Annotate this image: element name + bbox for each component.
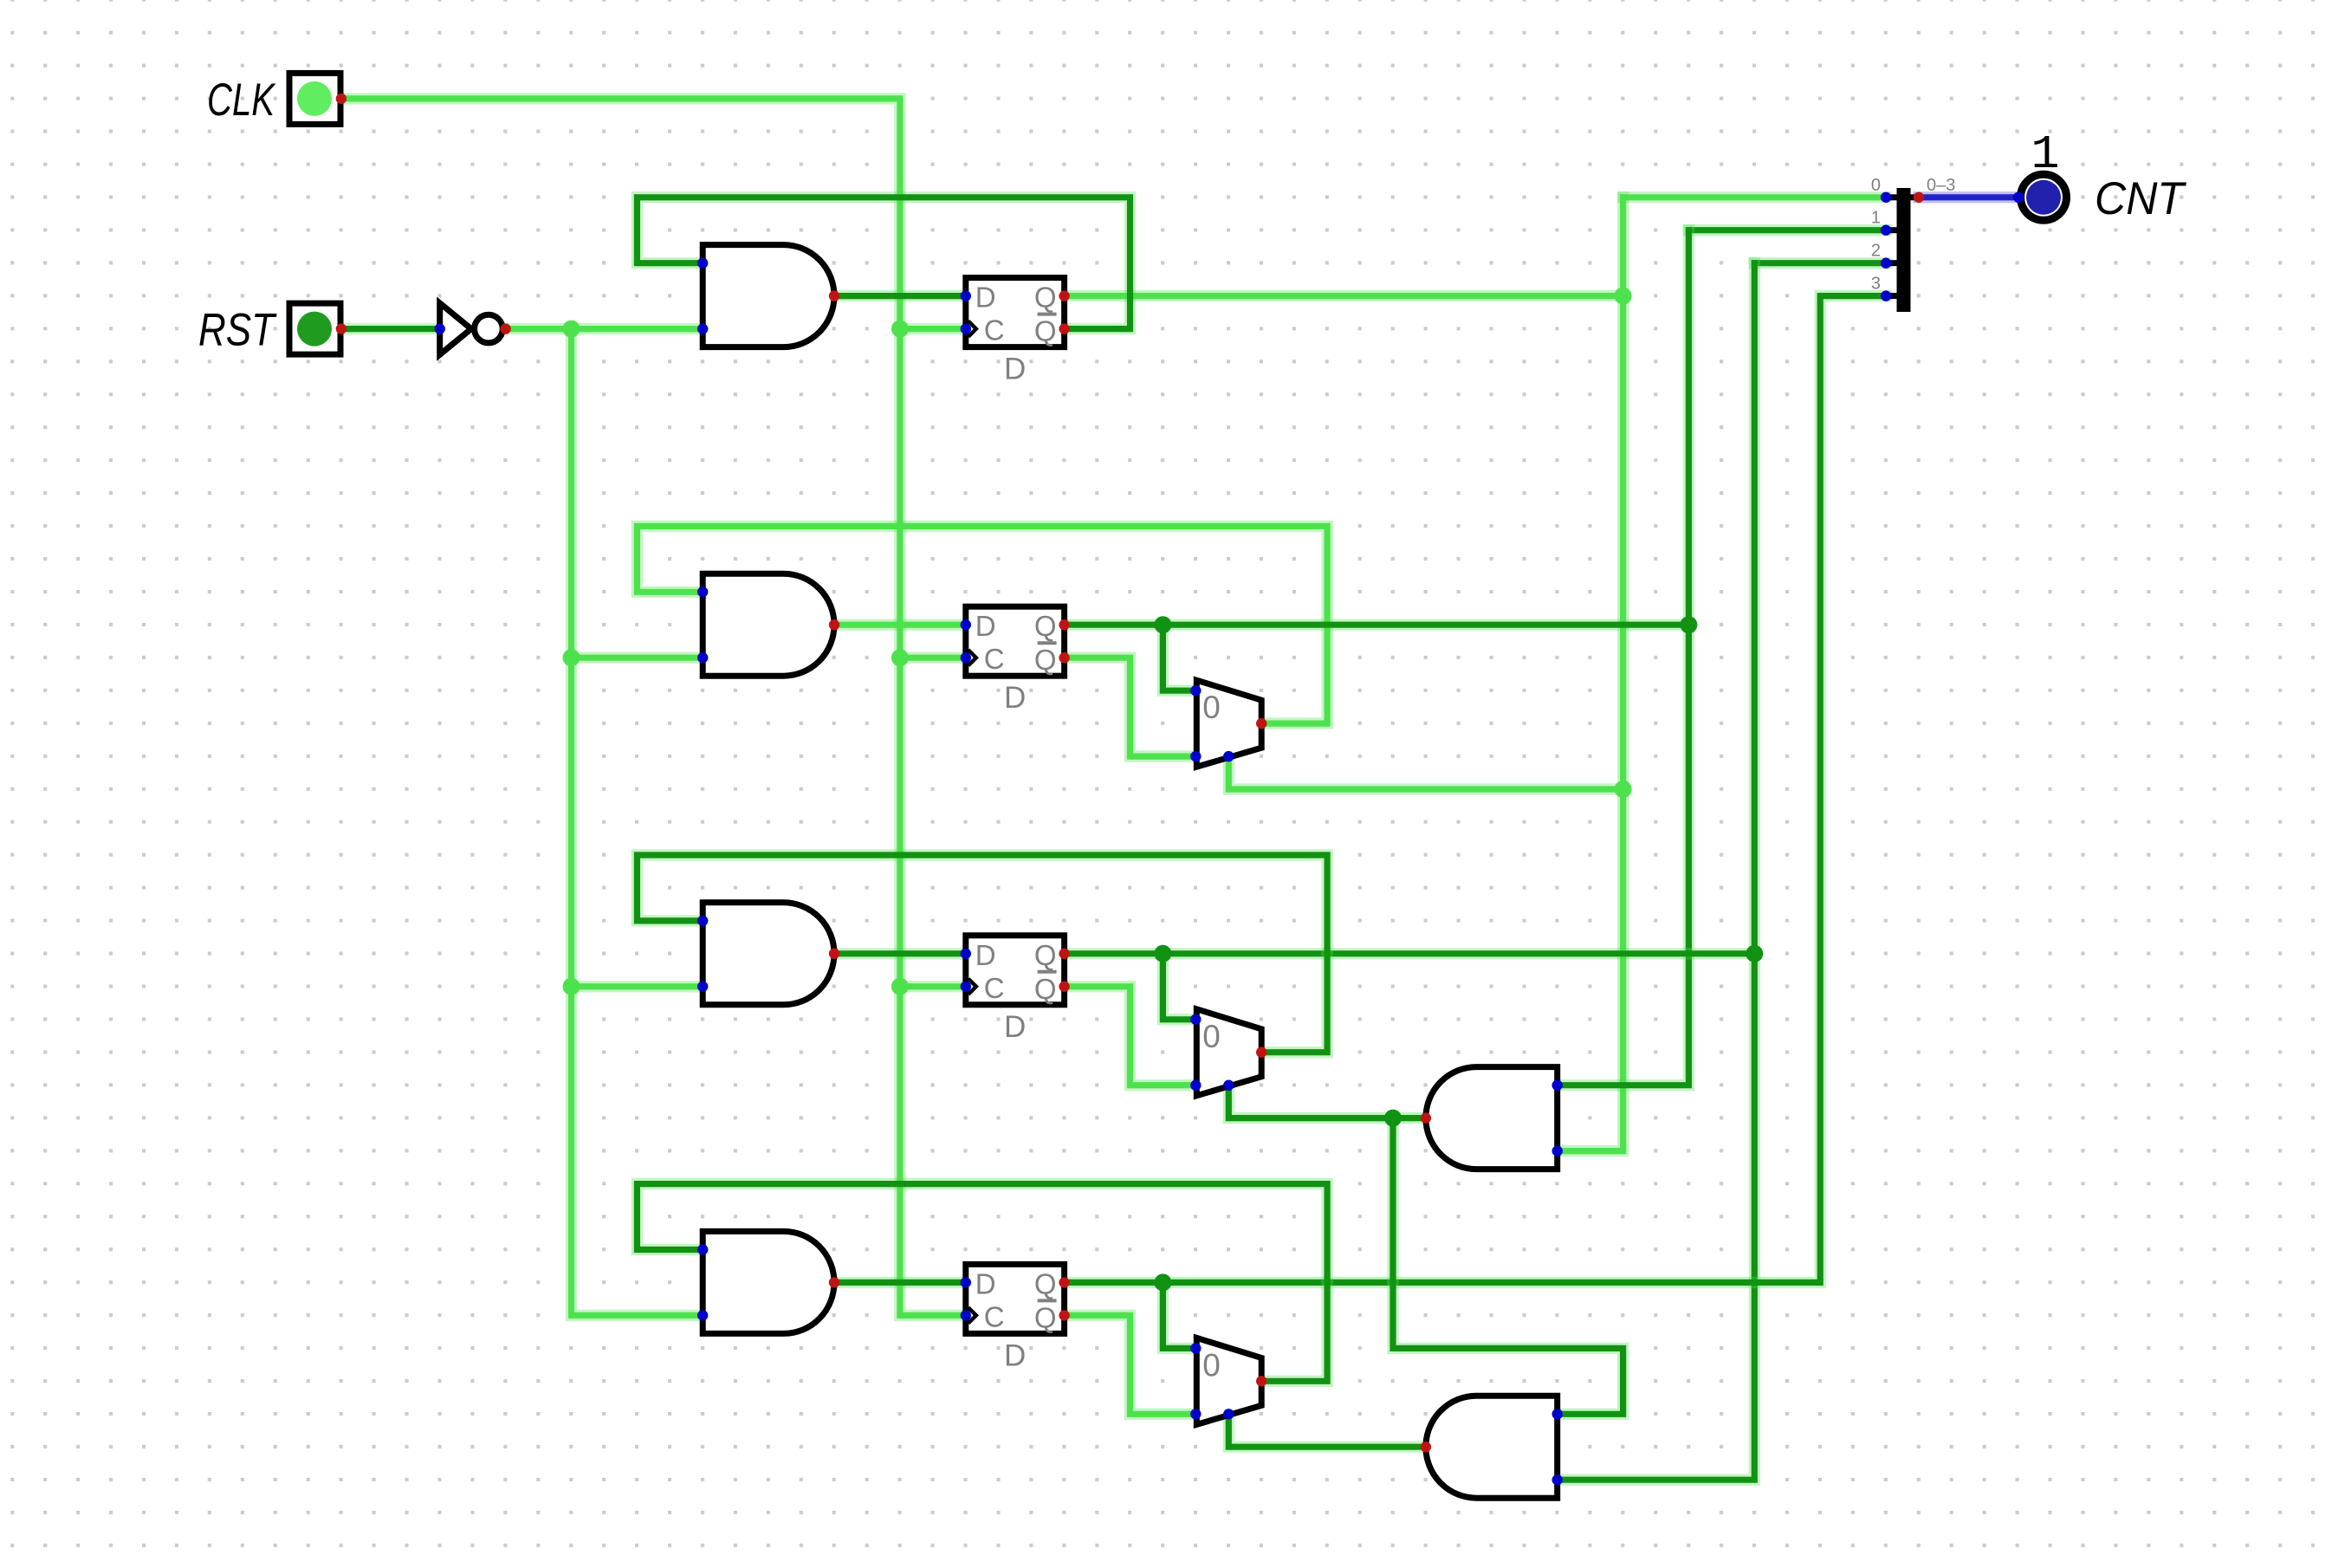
pin FF3.D: [961, 949, 971, 959]
junction FF3.Q mux tap: [1154, 945, 1171, 962]
wire FF1.Q vertical: [1558, 198, 1623, 1151]
pin MUX1.in0: [1190, 685, 1201, 696]
svg-text:0: 0: [1202, 690, 1221, 725]
pin AND U6.in2: [1552, 1474, 1563, 1485]
pin FF4.Qn: [1059, 1310, 1069, 1320]
wire FF4.Q to MUX3.in0: [1163, 1282, 1195, 1348]
wire CNT bus: [1919, 191, 2018, 203]
pin FF4.Q: [1059, 1277, 1069, 1287]
svg-text:Q: Q: [1034, 282, 1057, 314]
wire FF3.Q vertical: [1558, 263, 1755, 1481]
pin MUX2.sel: [1223, 1080, 1234, 1091]
wire AND4.out to FF4.D: [834, 1277, 966, 1288]
pin FF1.Qn: [1059, 323, 1069, 334]
pin AND U6.out: [1421, 1442, 1431, 1452]
pin splitter.in0: [1881, 192, 1891, 203]
wire FF2.Q to MUX1.in0: [1163, 625, 1195, 690]
pin splitter.in2: [1881, 258, 1891, 269]
pin FF3.C: [961, 982, 971, 992]
wire CLK to FF2.C: [900, 652, 966, 664]
junction CLK / FF3.C: [891, 978, 909, 995]
wire CLK to FF1.C: [900, 323, 966, 334]
pin RST.out: [336, 323, 347, 334]
pin MUX2.in0: [1190, 1014, 1201, 1025]
pin AND U2.in1: [697, 586, 708, 597]
pin FF2.C: [961, 652, 971, 663]
svg-text:C: C: [984, 643, 1005, 675]
D flip-flop FF3: [966, 936, 1065, 1044]
svg-text:CNT: CNT: [2095, 173, 2186, 224]
pin FF1.C: [961, 323, 971, 334]
AND gate U3 (bit2 enable): [703, 903, 834, 1005]
wire FF3.Qn to MUX2.in1: [1065, 987, 1196, 1085]
wire FF1.Q to junction: [1065, 290, 1623, 301]
svg-text:Q: Q: [1034, 973, 1057, 1005]
svg-text:0: 0: [1871, 176, 1881, 195]
output CNT: [2021, 174, 2067, 220]
pin FF4.D: [961, 1277, 971, 1287]
pin MUX3.sel: [1223, 1409, 1234, 1419]
wire AND5.out to AND6.in1: [1393, 1118, 1623, 1415]
pin MUX1.sel: [1223, 751, 1234, 761]
svg-text:D: D: [975, 1267, 996, 1299]
svg-text:0–3: 0–3: [1927, 176, 1955, 195]
svg-text:1: 1: [2031, 127, 2059, 182]
wire AND3.out to FF3.D: [834, 948, 966, 959]
pin AND U3.out: [829, 949, 839, 959]
pin FF2.D: [961, 619, 971, 630]
wire AND5.out to MUX2.sel: [1228, 1085, 1426, 1118]
pin MUX3.out: [1256, 1376, 1266, 1386]
pin splitter.out: [1914, 192, 1924, 203]
AND gate U5 (carry1, mirrored): [1426, 1067, 1558, 1170]
pin AND U5.in1: [1552, 1080, 1563, 1091]
wire FF2.Q vertical: [1558, 230, 1689, 1085]
pin AND U5.in2: [1552, 1145, 1563, 1156]
multiplexer MUX1: [1196, 680, 1261, 767]
junction FF4.Q mux tap: [1154, 1273, 1171, 1291]
wire CLK to FF3.C: [900, 981, 966, 992]
svg-text:1: 1: [1871, 209, 1881, 228]
wire NOT.out to AND3.in2: [572, 981, 703, 992]
svg-text:0: 0: [1202, 1019, 1221, 1054]
svg-text:C: C: [984, 314, 1005, 347]
svg-text:D: D: [1004, 1338, 1026, 1372]
pin AND U5.out: [1421, 1112, 1431, 1123]
wire AND6.out to MUX3.sel: [1228, 1414, 1426, 1447]
pin CNT.in: [2013, 192, 2024, 203]
input RST: [289, 303, 340, 354]
pin FF2.Q: [1059, 619, 1069, 630]
multiplexer MUX3: [1196, 1338, 1261, 1424]
wire FF1.Qn to AND1.in1: [637, 198, 1130, 329]
wire FF2.Qn to MUX1.in1: [1065, 658, 1196, 756]
pin FF1.D: [961, 290, 971, 301]
junction NOT.out row30: [563, 978, 580, 995]
svg-text:RST: RST: [198, 305, 277, 356]
junction CLK / FF1.C: [891, 321, 909, 338]
D flip-flop FF4: [966, 1264, 1065, 1372]
AND gate U2 (bit1 enable): [703, 573, 834, 676]
AND gate U6 (carry2, mirrored): [1426, 1396, 1558, 1498]
pin FF4.C: [961, 1310, 971, 1320]
AND gate U4 (bit3 enable): [703, 1231, 834, 1333]
pin AND U4.in2: [697, 1310, 708, 1320]
svg-text:Q: Q: [1034, 1301, 1057, 1333]
D flip-flop FF2: [966, 606, 1065, 715]
svg-text:2: 2: [1871, 242, 1881, 261]
wire FF1.Q to splitter pin0: [1623, 191, 1887, 203]
pin MUX3.in1: [1190, 1409, 1201, 1419]
pin AND U1.out: [829, 290, 839, 301]
junction NOT.out / AND1.in2: [563, 321, 580, 338]
wire MUX1.out to AND2.in1: [637, 526, 1327, 723]
pin MUX2.out: [1256, 1047, 1266, 1058]
pin NOT.in: [435, 323, 445, 334]
svg-text:D: D: [1004, 1010, 1026, 1044]
wire NOT.out to AND2.in2: [572, 652, 703, 664]
pin AND U6.in1: [1552, 1409, 1563, 1419]
NOT gate (inverter): [440, 303, 503, 354]
junction FF1.Q sel tap: [1615, 781, 1632, 798]
svg-text:D: D: [975, 610, 996, 642]
wire FF4.Qn to MUX3.in1: [1065, 1315, 1196, 1414]
input CLK: [289, 73, 340, 124]
pin AND U3.in1: [697, 916, 708, 926]
AND gate U1 (bit0 enable): [703, 245, 834, 347]
wire AND2.out to FF2.D: [834, 619, 966, 631]
wire FF2.Q trunk: [1065, 619, 1689, 631]
svg-text:3: 3: [1871, 275, 1881, 294]
wire FF3.Q to MUX2.in0: [1163, 954, 1195, 1020]
pin NOT.out: [500, 323, 510, 334]
pin AND U3.in2: [697, 982, 708, 992]
pin AND U1.in2: [697, 323, 708, 334]
D flip-flop FF1: [966, 278, 1065, 386]
wire FF2.Q to splitter pin1: [1688, 224, 1886, 236]
wire MUX2.out to AND3.in1: [637, 855, 1327, 1053]
pin MUX1.out: [1256, 718, 1266, 729]
wire RST to NOT.in: [341, 323, 440, 334]
pin AND U1.in1: [697, 258, 708, 269]
wire AND1.out to FF1.D: [834, 290, 966, 301]
svg-text:C: C: [984, 972, 1005, 1004]
junction FF2.Q mux tap: [1154, 616, 1171, 633]
svg-text:D: D: [975, 939, 996, 971]
pin AND U2.in2: [697, 652, 708, 663]
splitter (bus merger 0-3): [1886, 188, 1919, 312]
svg-text:D: D: [1004, 681, 1026, 715]
svg-text:Q: Q: [1034, 610, 1057, 642]
svg-text:Q: Q: [1034, 644, 1057, 676]
pin FF1.Q: [1059, 290, 1069, 301]
svg-text:D: D: [1004, 353, 1026, 386]
junction AND5.out tap: [1384, 1110, 1402, 1127]
svg-text:C: C: [984, 1300, 1005, 1332]
pin AND U4.in1: [697, 1244, 708, 1254]
pin AND U2.out: [829, 619, 839, 630]
svg-text:CLK: CLK: [207, 75, 276, 126]
junction NOT.out row20: [563, 649, 580, 666]
pin splitter.in3: [1881, 290, 1891, 301]
pin FF2.Qn: [1059, 652, 1069, 663]
pin MUX3.in0: [1190, 1343, 1201, 1353]
svg-text:Q: Q: [1034, 315, 1057, 347]
pin CLK.out: [336, 94, 347, 104]
wire FF3.Q to splitter pin2: [1754, 257, 1886, 269]
wire CLK trunk: [341, 99, 966, 1316]
pin FF3.Q: [1059, 949, 1069, 959]
wire FF1.Q to MUX1 sel: [1228, 756, 1623, 789]
multiplexer MUX2: [1196, 1009, 1261, 1096]
junction CLK / FF2.C: [891, 649, 909, 666]
junction FF3.Q splitter tap: [1746, 945, 1763, 962]
svg-text:D: D: [975, 282, 996, 314]
svg-text:Q: Q: [1034, 1267, 1057, 1299]
svg-text:0: 0: [1202, 1347, 1221, 1383]
pin FF3.Qn: [1059, 982, 1069, 992]
junction FF1.Q corner: [1615, 288, 1632, 305]
pin MUX1.in1: [1190, 751, 1201, 761]
pin AND U4.out: [829, 1277, 839, 1287]
wire FF3.Q trunk: [1065, 948, 1755, 959]
junction FF2.Q splitter tap: [1680, 616, 1697, 633]
wire NOT.out to AND1.in2: [506, 323, 703, 334]
wire NOT.out vertical: [572, 329, 703, 1316]
wire FF4.Q trunk to splitter pin3: [1065, 296, 1887, 1283]
wire MUX3.out to AND4.in1: [637, 1184, 1327, 1382]
svg-text:Q: Q: [1034, 939, 1057, 971]
pin MUX2.in1: [1190, 1080, 1201, 1091]
pin splitter.in1: [1881, 225, 1891, 236]
